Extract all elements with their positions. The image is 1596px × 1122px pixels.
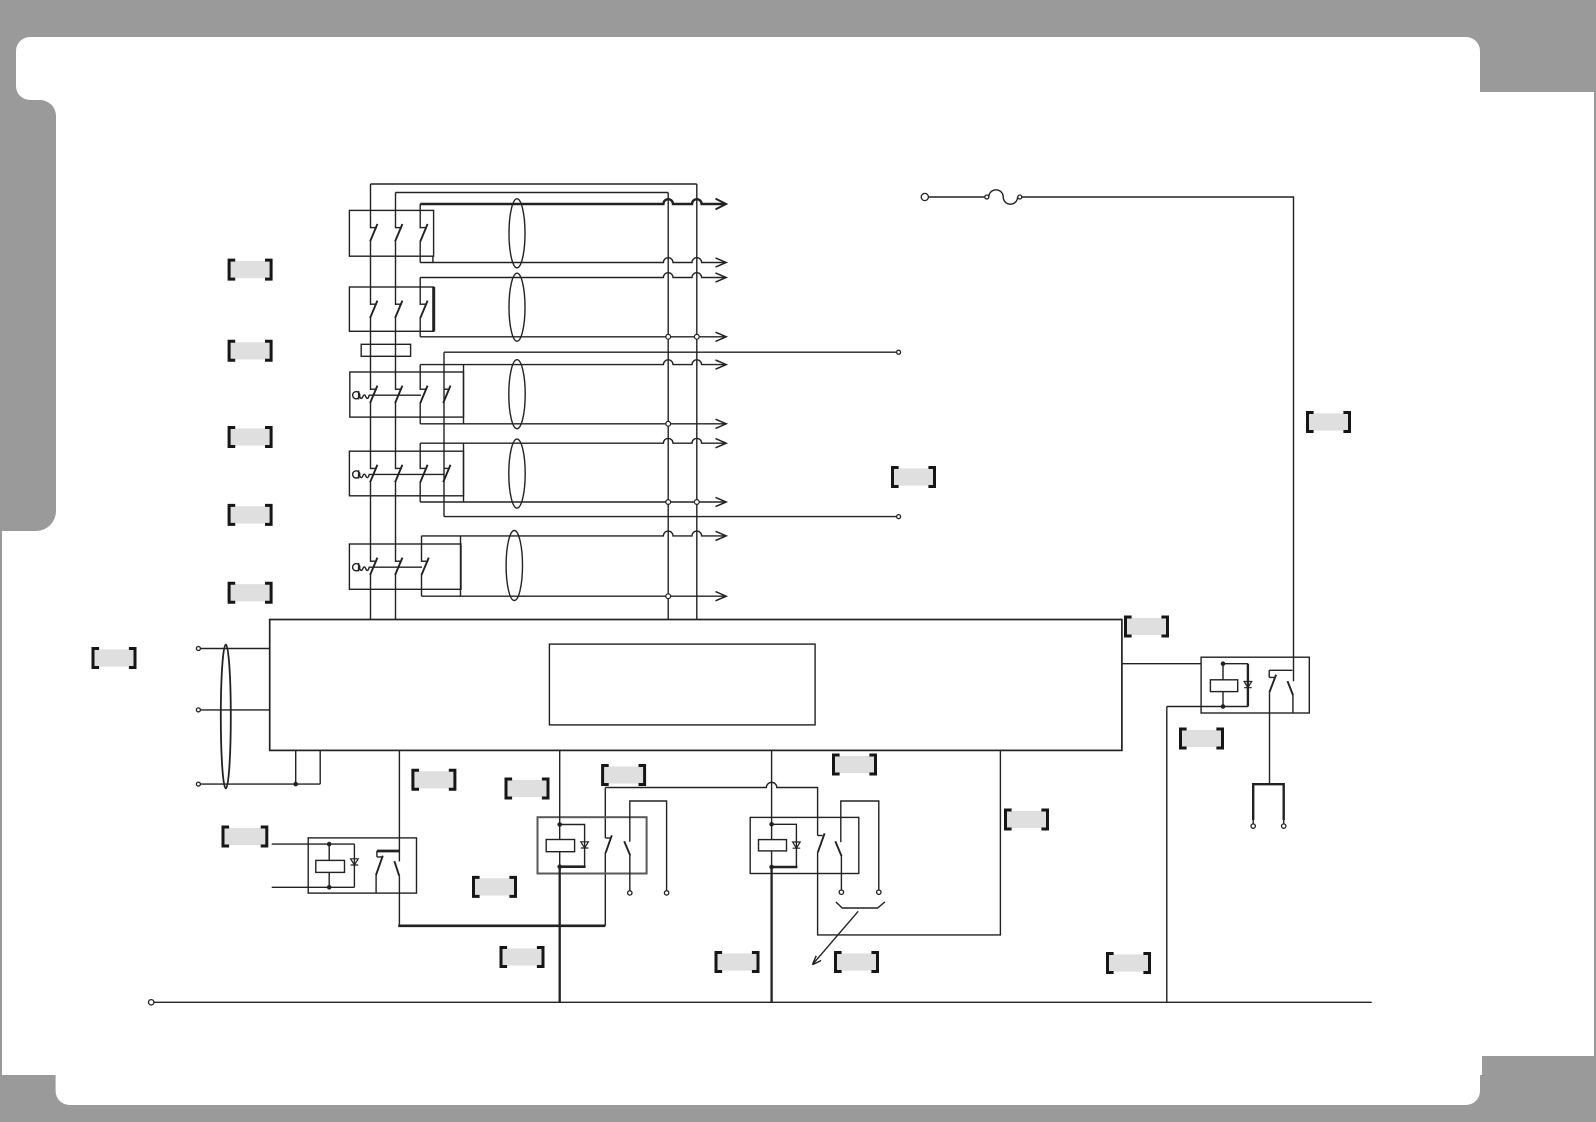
node input 1 — [196, 647, 200, 651]
wire chain link with crossover hop — [605, 782, 817, 835]
switch K1 moving blade — [394, 861, 399, 876]
diode D1 — [351, 859, 359, 865]
overload protector P5 — [353, 563, 422, 571]
switch K1 contact — [376, 851, 383, 893]
wire PCB to K4 — [1122, 663, 1201, 665]
wire K2 diode bottom link (thick) — [559, 865, 586, 868]
node K1 top — [327, 842, 332, 847]
label L4 — [229, 505, 271, 524]
wire box-right extension row1 — [432, 256, 434, 262]
wire row3 bottom output (arrow line with terminals at bus) — [420, 419, 726, 428]
wire K4 blade leg — [1292, 695, 1294, 713]
wire K3 aux link — [841, 801, 879, 890]
wire row1 top output (arrow line with crossovers) — [420, 199, 726, 210]
overload protector P3 — [353, 391, 421, 399]
node fuse left — [985, 195, 989, 199]
wire right bus D — [696, 184, 698, 620]
wire K1 common from PCB — [398, 750, 400, 861]
wire row5 top output (arrow line with crossovers) — [422, 531, 727, 540]
transformer winding T5 — [506, 531, 522, 601]
label L13 — [1006, 810, 1048, 829]
breaker contact CB2a — [370, 301, 377, 318]
wire row4 top output (arrow line with crossovers) — [420, 438, 726, 447]
node K2 bottom — [557, 864, 562, 869]
label L21 — [1108, 954, 1150, 973]
coil K3 — [759, 840, 787, 851]
wire row5 bottom output (arrow line with terminals at bus) — [422, 592, 727, 601]
wire K4 diode bottom link — [1223, 706, 1248, 708]
breaker contact CB4c — [420, 465, 427, 482]
label L16 — [1126, 617, 1168, 636]
bottom-left corner block — [0, 1075, 70, 1105]
node K3 terminal b — [877, 890, 881, 894]
breaker contact CB1b — [395, 224, 402, 241]
overload protector P4 — [353, 470, 444, 478]
wire K4 coil return — [1167, 707, 1223, 1003]
transformer winding T2 — [509, 273, 525, 341]
label L3 — [229, 428, 271, 447]
breaker contact CB3b — [395, 386, 402, 403]
diode D3 — [793, 842, 801, 848]
diode D4 — [1244, 682, 1252, 688]
left index tab — [0, 100, 56, 531]
inner module block — [549, 644, 815, 725]
wire row2 bottom output (arrow line with terminals at bus) — [420, 332, 726, 341]
breaker contact CB3a — [370, 386, 377, 403]
relay K3 box — [750, 817, 859, 873]
wire K3 coil to bottom bus (thick) — [770, 867, 772, 1002]
wire K3 diode top link — [772, 824, 797, 867]
wire loop left edge row2 — [419, 278, 421, 337]
breaker contact CB4b — [395, 465, 402, 482]
label L2 — [229, 341, 271, 360]
label L22 — [501, 948, 543, 967]
wire K2 aux leg — [629, 856, 631, 891]
wire K2 coil feed from PCB — [559, 750, 561, 866]
bottom-right corner notch — [1450, 1056, 1596, 1122]
wire loop right edge row4 — [463, 443, 465, 502]
wire row1 bottom output (arrow line with crossovers) — [420, 258, 726, 267]
node K3 top — [769, 822, 774, 827]
wire input 1 — [201, 648, 270, 650]
wire fuse lead — [929, 196, 985, 198]
breaker contact CB5a — [370, 558, 377, 575]
diode D2 — [581, 842, 589, 848]
switch K3 contact — [818, 833, 825, 852]
label L15 — [1308, 413, 1350, 432]
breaker contact CB4a — [370, 465, 377, 482]
label L8 — [413, 770, 455, 789]
transformer winding T4 — [509, 439, 525, 508]
main PCB block — [270, 620, 1122, 751]
node input 3 — [196, 782, 200, 786]
wire outer loop top (phase bus L1) — [371, 183, 697, 185]
wire input 2 — [201, 709, 270, 711]
breaker box CB5 — [349, 544, 461, 589]
breaker contact CB1a — [370, 224, 377, 241]
wire K4 output down — [1269, 692, 1271, 784]
label L18 — [836, 953, 878, 972]
label L1 — [229, 260, 271, 279]
breaker box CB4 — [349, 451, 463, 496]
transformer winding T3 — [509, 360, 525, 429]
wire column bus B — [395, 193, 397, 620]
wire neutral bus — [154, 1001, 1372, 1003]
wire K4 diode top link — [1223, 663, 1248, 665]
switch K4 moving blade — [1288, 681, 1294, 695]
breaker contact CB3c — [420, 386, 427, 403]
label L17 — [1181, 729, 1223, 748]
node input 2 — [196, 708, 200, 712]
node K2 terminal b — [664, 891, 668, 895]
winding L1 — [221, 645, 231, 789]
node fork terminal b — [1282, 824, 1286, 828]
wire K3 aux leg — [840, 856, 842, 890]
switch K1 contact bar — [377, 850, 400, 853]
node fork terminal a — [1251, 824, 1255, 828]
breaker contact CB4d — [443, 465, 450, 482]
label L19 — [716, 953, 758, 972]
wire K2 aux link — [630, 801, 667, 891]
fuse block F1 — [361, 344, 410, 356]
wire K4 diode branch (thick) — [1247, 664, 1249, 707]
node K2 terminal a — [628, 891, 632, 895]
wire riser to relay chain — [604, 788, 606, 926]
breaker contact CB5c — [422, 558, 429, 575]
relay K4 box — [1201, 657, 1309, 713]
switch K2 aux blade — [624, 841, 630, 855]
breaker contact CB5b — [395, 558, 402, 575]
node K3 bottom — [769, 865, 774, 870]
node sense line 1 end — [897, 350, 901, 354]
wire row2 top output (arrow line with crossovers) — [420, 273, 726, 282]
wire PCB leg left — [295, 750, 297, 784]
wire sense line 1 — [444, 351, 896, 353]
transformer winding T1 — [509, 199, 525, 268]
annotation arrow — [812, 911, 858, 964]
wire K3 diode bottom link (thick) — [770, 866, 797, 869]
wire loop left edge row1 — [419, 204, 421, 263]
wire column bus A — [370, 184, 372, 620]
switch K2 contact — [605, 835, 612, 853]
label L5 — [229, 583, 271, 602]
node K1 bottom — [327, 885, 332, 890]
coil K2 — [546, 840, 574, 852]
wire K2 diode top link — [560, 825, 585, 867]
breaker contact CB1c — [420, 224, 427, 241]
heater fork terminal — [1253, 783, 1284, 824]
wire PCB leg right — [319, 750, 321, 784]
fuse TH1 input terminal — [921, 193, 928, 200]
node fuse right — [1018, 195, 1022, 199]
breaker contact CB2c — [420, 301, 427, 318]
node leg junction — [293, 782, 298, 787]
wire sense line 2 — [444, 516, 896, 518]
wire K1 coil input top — [272, 843, 355, 845]
switch K4 contact bar — [1269, 669, 1292, 671]
wire sense column — [443, 352, 445, 516]
thermal fuse element — [989, 190, 1018, 204]
wire K1 coil vertical — [328, 844, 330, 887]
wire K1 output run (thick) — [398, 924, 605, 927]
wire K1 diode branch — [353, 844, 355, 887]
node K4 bottom — [1221, 704, 1226, 709]
node K4 top — [1221, 661, 1226, 666]
wire K3 output to PCB return — [818, 750, 1001, 935]
label L11 — [474, 877, 516, 896]
wire row3 top output (arrow line with crossovers) — [420, 360, 726, 369]
wire loop left edge row5 — [421, 536, 423, 596]
switch K4 contact — [1269, 670, 1276, 692]
wire right bus C — [667, 193, 669, 620]
breaker contact CB2b — [395, 301, 402, 318]
relay K1 box — [308, 838, 416, 893]
label L6 — [93, 649, 135, 668]
wire input 3 — [201, 783, 321, 785]
node sense line 2 end — [897, 515, 901, 519]
breaker box CB3 — [350, 372, 464, 417]
connector bracket symbol — [836, 902, 885, 908]
wire loop left edge row4 — [419, 443, 421, 502]
wire inner loop top (phase bus L2) — [396, 192, 669, 194]
switch K3 aux blade — [835, 841, 841, 856]
node neutral terminal — [149, 1000, 154, 1005]
wire loop right edge row3 — [463, 365, 465, 424]
wire K4 coil vertical — [1222, 664, 1224, 707]
wire K1 output down — [398, 876, 400, 926]
breaker box CB2 — [349, 287, 433, 331]
coil K4 — [1210, 680, 1237, 692]
label L7 — [223, 827, 267, 846]
wire fuse to relay K4 — [1022, 197, 1294, 681]
wire K1 coil input bottom — [272, 886, 355, 888]
node K2 top — [557, 822, 562, 827]
breaker box CB1 — [349, 210, 433, 256]
coil K1 — [316, 860, 345, 872]
wire K2 coil to bottom bus (thick) — [559, 867, 561, 1003]
wire loop right edge row5 — [460, 536, 462, 596]
wire row4 bottom output (arrow line with terminals at bus) — [420, 497, 726, 506]
breaker contact CB3d — [443, 386, 450, 403]
label L9 — [506, 779, 548, 798]
label L10 — [603, 766, 645, 785]
thick contact bar CB2 — [432, 287, 435, 331]
label L12 — [834, 755, 876, 774]
relay K2 box — [538, 817, 647, 873]
label L14 — [893, 468, 935, 487]
wire K3 coil feed from PCB — [771, 750, 773, 867]
node K3 terminal a — [839, 890, 843, 894]
wire loop left edge row3 — [419, 365, 421, 424]
